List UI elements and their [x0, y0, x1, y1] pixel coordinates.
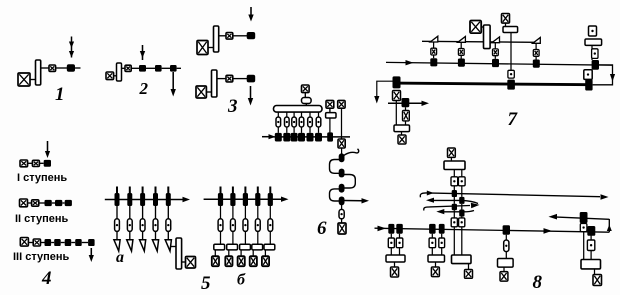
scheme 7: takeoff arrow	[388, 101, 429, 106]
svg-text:6: 6	[317, 218, 327, 239]
scheme 5a: feeder 5 (oval with dot)	[166, 219, 171, 232]
wire	[214, 250, 216, 256]
scheme 2: screen (tall rect)	[117, 63, 122, 81]
scheme 6: spiral classifier axis wire	[341, 148, 343, 155]
scheme 1: crusher (square with X)	[18, 73, 30, 86]
scheme 8: circulating arrow (right, lower)	[424, 203, 480, 211]
scheme 6: mill 1 (black bar)	[275, 133, 282, 142]
scheme 7: right feeder 2 (square with dot)	[584, 70, 592, 80]
scheme 8: col5 hopper (black square)	[503, 225, 510, 234]
scheme 3 row1: crusher (square with X)	[197, 41, 208, 55]
scheme 8: mill L2 (black square)	[452, 204, 457, 210]
scheme 6: feeder 1 (oval with dot)	[276, 117, 281, 127]
wire	[591, 45, 593, 48]
wire	[453, 170, 455, 177]
scheme 6: feed arrow	[262, 134, 276, 139]
scheme 6: spiral classifier loop 1 (left)	[330, 160, 342, 174]
svg-text:1: 1	[55, 84, 65, 105]
wire	[131, 67, 139, 69]
wire	[394, 262, 396, 267]
scheme 7: left feeder (square with X)	[393, 91, 401, 101]
scheme 8: pair2 sump (rect)	[428, 255, 445, 262]
wire	[583, 232, 585, 260]
scheme 2: feed arrow	[140, 45, 145, 60]
wire	[129, 206, 131, 219]
scheme 8: center bunker (rect)	[444, 161, 465, 170]
wire	[286, 127, 288, 133]
scheme 8: top crusher (square with X)	[448, 148, 456, 157]
scheme 5a: funnel 1 (open triangle)	[114, 240, 120, 251]
wire	[494, 56, 496, 59]
wire	[460, 42, 462, 48]
scheme 6: sands arrow	[345, 198, 370, 203]
scheme 8: pair2 feeder B (square with dot)	[439, 238, 445, 248]
wire	[305, 104, 307, 106]
svg-text:3: 3	[227, 96, 238, 117]
scheme 5b: feeder 4 (oval with dot)	[255, 219, 260, 232]
wire	[405, 107, 407, 110]
scheme 8: right discharge (square with X)	[593, 275, 602, 286]
scheme 6: feeder 5 (oval with dot)	[308, 117, 313, 127]
scheme 2: mill 3 (black square)	[170, 65, 177, 72]
label 6	[317, 218, 327, 239]
scheme 7: right hopper 2 (black square)	[585, 79, 592, 90]
scheme 7: crusher (big square with X)	[470, 21, 481, 34]
wire	[155, 206, 157, 219]
scheme 7: station 4 plough (triangle)	[533, 38, 541, 44]
scheme 7: station 3 feeder (square with X)	[493, 49, 499, 56]
scheme 5b: mill 2 (square with X)	[225, 256, 232, 266]
scheme 7: top bin crusher (square with X)	[502, 14, 510, 24]
scheme 4 row III: mill 1 (black square)	[45, 239, 52, 246]
wire	[206, 91, 211, 93]
svg-text:2: 2	[139, 79, 149, 98]
scheme 5b: mill 3 (square with X)	[238, 256, 245, 266]
scheme 7: station 4 hopper (black square)	[533, 60, 540, 68]
wire	[309, 127, 311, 133]
wire	[341, 204, 343, 209]
scheme 8: center pump R (square with dot)	[459, 218, 465, 227]
scheme 6: top crusher (square with X)	[302, 85, 310, 93]
wire	[399, 234, 401, 238]
wire	[535, 43, 537, 49]
scheme 7: station 1 hopper (black square)	[430, 58, 437, 66]
scheme 7: right bin (rect)	[585, 39, 602, 45]
wire	[122, 67, 126, 69]
wire	[468, 264, 470, 270]
wire	[116, 231, 118, 239]
svg-text:4: 4	[41, 268, 52, 289]
wire	[461, 204, 463, 210]
scheme 5a: hopper 2 (black bar)	[127, 193, 132, 206]
svg-text:II ступень: II ступень	[15, 213, 68, 225]
wire	[453, 197, 455, 204]
scheme 5a: hopper 2 feed stem	[129, 187, 131, 194]
scheme 5b: conveyor line with arrow	[204, 197, 289, 202]
scheme 6: mill 5 (black bar)	[307, 133, 314, 142]
wire	[155, 231, 157, 239]
wire	[329, 108, 331, 112]
scheme 7: right loop (line down with arrow)	[593, 65, 616, 85]
label 2	[139, 79, 149, 98]
label 7	[508, 109, 519, 130]
scheme 5a: feeder 4 (oval with dot)	[153, 219, 158, 232]
wire	[82, 242, 88, 244]
wire	[453, 210, 455, 218]
scheme 8: mill R2 (black square)	[459, 210, 464, 217]
wire	[390, 234, 392, 238]
scheme 2: discharge arrow	[171, 72, 176, 97]
scheme 6: classifier stage 2 (black oval)	[339, 169, 345, 178]
scheme 2: mill 1 (black square)	[139, 65, 146, 72]
scheme 4 row I: mill (black square)	[44, 160, 51, 167]
wire	[114, 75, 117, 77]
scheme 4 row I: feed arrow	[45, 141, 50, 158]
scheme 5b: feeder 3 (oval with dot)	[243, 219, 248, 232]
scheme 5b: feeder 1 (oval with dot)	[218, 219, 223, 232]
scheme 6: bin A (small rect)	[326, 113, 336, 118]
wire	[167, 231, 169, 239]
wire	[453, 227, 455, 255]
scheme 8: main line with start arrow	[375, 226, 610, 233]
scheme 5b: hopper 5 (black bar)	[268, 193, 273, 206]
scheme 4 row II: mill 3 (black square)	[65, 200, 72, 206]
wire	[590, 251, 592, 260]
wire	[505, 23, 507, 26]
scheme 5b: feeder 5 (oval with dot)	[268, 219, 273, 232]
scheme 1: feed arrow (double head)	[69, 37, 74, 58]
scheme 5b: mill 4 (square with X)	[250, 256, 257, 266]
scheme 6: spiral classifier loop 3 (left)	[330, 189, 342, 201]
wire	[304, 93, 306, 98]
scheme 8: col5 feeder (tall oval with dot)	[504, 240, 509, 252]
wire	[71, 242, 75, 244]
scheme 5a: crusher (square with X)	[186, 257, 196, 269]
scheme 7: middle belt line with arrow	[386, 60, 613, 65]
scheme 3 row1: screen (tall rect)	[214, 26, 219, 52]
scheme 3 row1: small crusher (square with X)	[226, 33, 233, 40]
scheme 5b: hopper 3 feed stem	[244, 187, 246, 194]
scheme 5b: hopper 4 feed stem	[257, 187, 259, 194]
scheme 5a: funnel 2 (open triangle)	[127, 240, 133, 251]
wire	[41, 67, 49, 69]
scheme 2: mill 2 (black square)	[155, 65, 162, 72]
scheme 7: left bottom crusher (square with X)	[398, 135, 406, 144]
scheme 5b: bin 2 (small rect)	[227, 244, 238, 250]
scheme 8: return line with left arrow	[549, 214, 610, 220]
wire	[240, 250, 242, 256]
scheme 7: left bin (rect)	[394, 125, 410, 132]
scheme 7: station 2 feeder (square with X)	[458, 49, 464, 56]
wire	[441, 248, 443, 255]
wire	[182, 261, 186, 263]
scheme 5a: hopper 3 feed stem	[142, 187, 144, 194]
wire	[62, 202, 64, 204]
scheme 7: takeoff feeder (square with X)	[403, 111, 410, 121]
scheme 7: station 3 plough (triangle)	[492, 37, 500, 43]
wire	[293, 127, 295, 133]
scheme 5b: hopper 2 feed stem	[232, 187, 234, 194]
scheme 3 row1: feed arrow	[248, 7, 253, 22]
wire	[41, 242, 45, 244]
wire	[481, 26, 483, 28]
scheme 5a: hopper 5 (black bar)	[166, 193, 171, 206]
wire	[233, 78, 247, 80]
wire	[252, 250, 254, 256]
scheme 5a: funnel 5 (open triangle)	[165, 240, 171, 251]
scheme 6: classifier head (square with X)	[338, 139, 345, 148]
scheme 5b: bin 4 (small rect)	[252, 244, 263, 250]
scheme 4 row III: mill 3 (black square)	[65, 239, 72, 246]
wire	[28, 202, 32, 204]
wire	[505, 235, 507, 240]
scheme 7: right hopper (black square)	[592, 60, 599, 70]
wire	[433, 42, 435, 48]
wire	[318, 112, 320, 117]
wire	[590, 235, 592, 240]
wire	[341, 219, 343, 223]
scheme 6: mill 3 (black bar)	[291, 133, 298, 142]
scheme 8: col5 sump (rect)	[498, 259, 514, 268]
svg-text:III ступень: III ступень	[13, 251, 70, 263]
scheme 6: classifier stage 1 (black oval)	[339, 153, 345, 162]
label b	[237, 272, 246, 289]
scheme 8: center feeder L (square with dot)	[451, 177, 458, 186]
text II stage	[15, 213, 68, 225]
wire	[244, 206, 246, 219]
scheme 8: center discharge (square with X)	[465, 270, 473, 279]
svg-text:7: 7	[508, 109, 519, 130]
wire	[39, 162, 43, 164]
scheme 5a: hopper 1 feed stem	[116, 187, 118, 194]
wire	[401, 132, 403, 135]
scheme 8: pair2 feeder A (square with dot)	[429, 238, 436, 248]
scheme 7: station 2 hopper (black square)	[458, 59, 465, 67]
scheme 5a: feeder 1 (oval with dot)	[115, 219, 120, 232]
scheme 6: mill 6 (black bar)	[315, 133, 322, 142]
scheme 5a: feeder 3 (oval with dot)	[140, 219, 145, 232]
wire	[142, 206, 144, 219]
scheme 5b: mill 1 (square with X)	[212, 256, 219, 266]
scheme 8: mid arrow on main line	[544, 228, 553, 234]
wire	[329, 118, 331, 133]
wire	[318, 127, 320, 133]
wire	[75, 67, 81, 69]
scheme 3 row2: screen (tall rect)	[212, 70, 217, 97]
scheme 7: station 3 hopper (black square)	[492, 59, 499, 67]
scheme 4 row III: mill 2 (black square)	[54, 239, 61, 246]
wire	[146, 67, 155, 69]
scheme 7: right top feeder (square with dot)	[589, 26, 597, 36]
text III stage	[13, 251, 70, 263]
wire	[116, 206, 118, 219]
scheme 7: upper belt line	[422, 41, 536, 42]
svg-text:5: 5	[201, 273, 211, 294]
scheme 4 row I: crusher 1 (square with X)	[20, 160, 28, 167]
scheme 5b: bin 3 (small rect)	[240, 244, 251, 250]
scheme 4 row I: crusher 2 (square with X)	[32, 160, 39, 166]
scheme 4 row II: crusher 2 (square with X)	[32, 200, 39, 206]
scheme 6: mill A (black bar)	[327, 132, 333, 141]
scheme 6: classifier stage 3 (black oval)	[339, 184, 345, 193]
wire	[461, 170, 463, 177]
wire	[293, 112, 295, 117]
scheme 6: classifier stage 4 (black oval)	[339, 197, 345, 206]
wire	[399, 248, 401, 255]
wire	[461, 227, 463, 255]
scheme 5b: bin 5 (small rect)	[264, 244, 275, 250]
scheme 6: mill 2 (black bar)	[283, 133, 290, 142]
wire	[510, 33, 512, 71]
label 5	[201, 273, 211, 294]
wire	[219, 35, 226, 37]
scheme 8: pair2 discharge (square with X)	[431, 267, 439, 277]
wire	[162, 67, 170, 69]
scheme 2: small crusher (square with X)	[125, 65, 131, 71]
scheme 1: mill (black square)	[67, 64, 75, 71]
scheme 8: pair1 discharge (square with X)	[391, 267, 399, 277]
scheme 7: takeoff hopper (black square)	[402, 98, 410, 107]
scheme 3 row2: mill (black square)	[247, 75, 256, 83]
wire	[441, 234, 443, 238]
scheme 6: collecting line	[271, 136, 350, 138]
scheme 5a: hopper 4 feed stem	[155, 187, 157, 194]
svg-text:8: 8	[533, 272, 543, 293]
svg-text:а: а	[116, 249, 124, 266]
scheme 8: circulating arrow (left, upper)	[426, 198, 478, 204]
scheme 5b: feeder 2 (oval with dot)	[231, 219, 236, 232]
scheme 5a: hopper 4 (black bar)	[153, 193, 158, 206]
wire	[453, 186, 455, 190]
scheme 5b: bin 1 (small rect)	[214, 244, 225, 250]
scheme 5b: hopper 1 feed stem	[220, 187, 222, 194]
scheme 6: spiral classifier loop 2 (right)	[342, 175, 356, 189]
wire	[244, 231, 246, 244]
scheme 8: right hopper lower (black square)	[587, 226, 595, 236]
scheme 8: pair2 hopper A (black square)	[429, 224, 436, 234]
text I stage	[17, 172, 67, 184]
scheme 6: feeder 2 (oval with dot)	[285, 117, 290, 127]
wire	[390, 248, 392, 255]
scheme 8: right loop up	[607, 219, 612, 232]
scheme 4 row II: mill 2 (black square)	[55, 200, 62, 206]
wire	[217, 78, 226, 80]
scheme 6: pump (oval with dot)	[339, 209, 344, 218]
scheme 7: screen (tall rect)	[484, 25, 491, 49]
scheme 8: pair1 feeder B (square with dot)	[396, 238, 403, 248]
wire	[170, 246, 176, 248]
scheme 3 row1: mill (black square)	[247, 32, 256, 39]
wire	[591, 58, 593, 60]
scheme 5a: funnel 3 (open triangle)	[140, 240, 146, 251]
scheme 7: station 4 feeder (square with X)	[533, 50, 539, 57]
svg-text:I ступень: I ступень	[17, 172, 67, 184]
scheme 5b: hopper 1 (black bar)	[218, 193, 223, 206]
wire	[503, 267, 505, 272]
wire	[30, 79, 36, 81]
scheme 6: feeder 6 (oval with dot)	[316, 117, 321, 127]
wire	[286, 112, 288, 117]
scheme 5b: hopper 4 (black bar)	[255, 193, 260, 206]
wire	[277, 112, 279, 117]
scheme 8: right hopper upper (black square)	[580, 212, 588, 223]
scheme 7: station 1 feeder (square with X)	[431, 48, 437, 55]
wire	[309, 112, 311, 117]
scheme 6: distributing bunker (long bar)	[274, 106, 323, 113]
wire	[535, 56, 537, 59]
scheme 7: center feeder (square with dot)	[508, 70, 514, 78]
scheme 8: circulating arrow (left, lower)	[436, 209, 474, 214]
scheme 5b: hopper 3 (black bar)	[243, 193, 248, 206]
scheme 4 row III: crusher 1 (square with X)	[20, 238, 28, 247]
wire	[228, 250, 230, 256]
wire	[301, 112, 303, 117]
scheme 8: pair1 hopper B (black square)	[396, 224, 403, 234]
scheme 8: center pump L (square with dot)	[451, 218, 457, 227]
wire	[461, 186, 463, 197]
scheme 1: screen (tall rect)	[36, 60, 41, 85]
scheme 8: center sump (rect)	[452, 255, 472, 264]
scheme 3 row2: crusher (square with X)	[196, 86, 206, 98]
wire	[56, 67, 67, 69]
wire	[395, 101, 397, 126]
wire	[232, 206, 234, 219]
scheme 7: station 2 plough (triangle)	[458, 37, 466, 43]
wire	[505, 252, 507, 259]
scheme 3 row2: small crusher (square with X)	[226, 75, 233, 82]
scheme 6: feeder 3 (oval with dot)	[292, 117, 297, 127]
wire	[269, 206, 271, 219]
wire	[257, 206, 259, 219]
scheme 5b: hopper 2 (black bar)	[230, 193, 235, 206]
scheme 4 row III: mill 4 (black square)	[75, 239, 82, 246]
wire	[269, 231, 271, 244]
wire	[28, 242, 33, 244]
scheme 8: pair1 hopper A (black square)	[388, 224, 394, 234]
wire	[433, 55, 435, 58]
wire	[460, 55, 462, 58]
scheme 5b: hopper 5 feed stem	[269, 187, 271, 194]
wire	[208, 47, 214, 49]
scheme 4 row II: mill 1 (black square)	[45, 200, 52, 206]
wire	[431, 248, 433, 255]
scheme 5a: conveyor line with arrow	[105, 197, 190, 202]
scheme 4 row III: mill 5 (black square)	[88, 239, 95, 246]
scheme 7: center hopper (black square)	[507, 80, 515, 90]
scheme 5a: hopper 3 (black bar)	[140, 193, 145, 206]
scheme 5b: mill 5 (square with X)	[262, 256, 269, 266]
scheme 7: right feeder (square with dot)	[592, 49, 598, 59]
wire	[220, 231, 222, 244]
scheme 4 row II: crusher 1 (square with X)	[20, 199, 28, 207]
scheme 8: mill L1 (black square)	[452, 190, 457, 197]
wire	[52, 202, 55, 204]
wire	[494, 43, 496, 49]
wire	[28, 162, 33, 164]
scheme 8: right sump (rect)	[581, 260, 601, 269]
scheme 8: center feeder R (square with dot)	[458, 177, 465, 186]
wire	[167, 206, 169, 219]
wire	[129, 231, 131, 239]
wire	[341, 108, 343, 139]
scheme 8: col5 discharge (square with X)	[500, 272, 508, 282]
scheme 5a: hopper 1 (black bar)	[115, 193, 120, 206]
scheme 5a: screen (tall rect)	[176, 238, 182, 269]
scheme 8: pair1 feeder A (square with dot)	[388, 238, 394, 248]
wire	[461, 217, 463, 218]
label 8	[533, 272, 543, 293]
scheme 8: circulating arrow top (long right)	[420, 191, 608, 200]
